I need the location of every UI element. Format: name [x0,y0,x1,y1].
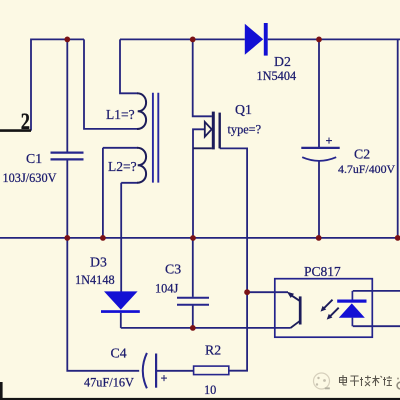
diode D2 triangle [245,24,263,55]
diode D3 cathode bar [101,310,140,313]
wire LED top rail [353,290,400,292]
wire opto collector from node [247,291,288,293]
wire LED bottom rail [353,325,400,327]
watermark icon [314,373,330,389]
opto transistor collector line [292,295,301,301]
svg-text:4.7uF/400V: 4.7uF/400V [338,162,396,176]
resistor R2 body [194,366,229,375]
wire right edge vertical [397,39,399,238]
svg-text:+: + [161,372,168,386]
svg-text:103J/630V: 103J/630V [3,171,57,185]
diode D2 cathode bar [264,23,268,56]
wire L2 bottom to D3 [121,183,137,292]
wire C1 branch vertical [66,39,68,238]
node bus L2 [100,235,106,241]
svg-text:C1: C1 [26,151,42,166]
opto transistor collector arrowhead [287,292,294,298]
opto transistor base bar [299,296,302,324]
svg-text:D3: D3 [90,255,107,270]
inductor L1 winding [137,93,146,129]
wire C2 branch [318,39,320,238]
wire D3 to opto emitter [121,327,291,329]
mosfet Q1 arrow [205,122,212,137]
opto LED stubs [351,291,353,326]
diode D3 triangle [104,291,138,309]
node top C1 [64,37,70,43]
svg-text:C3: C3 [165,262,181,277]
node gate collector [244,289,250,295]
capacitor C2 top plate [301,147,339,149]
svg-text:+: + [326,134,333,148]
opto LED triangle [339,303,365,317]
capacitor C3 plates [177,298,209,305]
capacitor C4 straight plate [155,354,157,388]
opto light arrow 2 [330,308,339,317]
optocoupler U1 box PC817 [275,279,373,338]
inductor L2 winding [137,148,146,183]
wire C3 branch [192,238,194,328]
svg-text:D2: D2 [274,54,291,69]
opto transistor emitter line [291,321,300,328]
capacitor C4 curved plate [143,353,147,388]
border left corner bar [0,382,3,400]
mosfet Q1 source stub [193,147,212,149]
node bus right [395,235,400,241]
wire Q1 gate to R2 [220,148,247,370]
svg-text:L2=?: L2=? [108,159,137,174]
wire L1 top connection [120,39,138,93]
wire top rail right segment [268,38,400,40]
capacitor C2 curved plate [302,157,336,161]
wire C4 to R2 [156,370,194,372]
wire L1 bottom return [84,39,138,128]
capacitor C1 plates [51,153,84,160]
mosfet Q1 channel bar [212,112,215,150]
svg-text:1N5404: 1N5404 [257,69,297,83]
svg-text:L1=?: L1=? [106,107,135,122]
wire C4 left leg [67,238,139,371]
terminal wire input pin 2 [0,129,31,132]
wire Q1 drain [193,39,212,116]
svg-text:Q1: Q1 [235,102,252,117]
border bottom line [0,398,400,400]
wire L2 left vertical [103,148,138,238]
svg-text:type=?: type=? [228,122,262,136]
node top Q1 drain [190,37,196,43]
opto LED cathode bar [337,300,366,303]
watermark text 电子技术控 [340,375,393,386]
svg-text:2: 2 [21,108,30,135]
node bus C2 [316,235,322,241]
wire ground bus [0,237,398,239]
mosfet Q1 gate bar [218,113,220,149]
wire top rail left segment [31,39,84,130]
svg-text:104J: 104J [155,282,178,296]
svg-text:1N4148: 1N4148 [75,273,115,287]
svg-text:C2: C2 [354,146,370,161]
svg-text:PC817: PC817 [304,264,341,279]
node C3 bottom [190,325,196,331]
wire D3 cathode down [120,313,122,328]
svg-text:10: 10 [204,383,216,397]
node bus Q1 source [190,235,196,241]
node bus C1 [64,235,70,241]
opto light arrow 1 [324,300,333,309]
wire Q1 source to bus [193,129,205,238]
node top C2 [316,37,322,43]
svg-text:C4: C4 [111,346,127,361]
transformer core lines [153,93,158,183]
svg-text:R2: R2 [205,342,221,357]
svg-text:47uF/16V: 47uF/16V [84,376,134,390]
watermark right edge partial icon [397,378,400,389]
wire top rail middle segment [120,38,245,40]
